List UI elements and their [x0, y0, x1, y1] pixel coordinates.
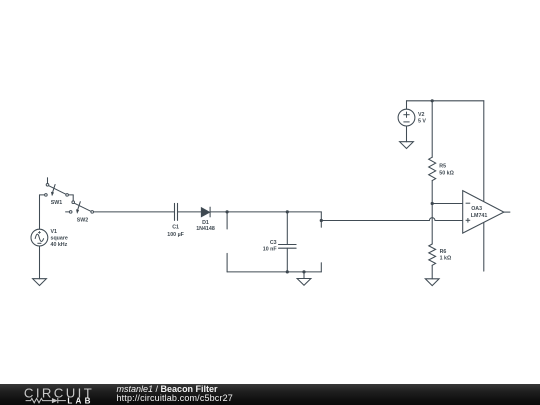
- svg-text:LAB: LAB: [67, 396, 93, 405]
- svg-text:V1: V1: [51, 229, 58, 235]
- svg-text:D1: D1: [202, 220, 209, 226]
- svg-text:C1: C1: [172, 225, 179, 231]
- svg-text:square: square: [51, 236, 68, 242]
- svg-text:OA3: OA3: [471, 206, 482, 212]
- svg-text:50 kΩ: 50 kΩ: [439, 171, 454, 177]
- svg-text:100 µF: 100 µF: [167, 232, 184, 238]
- svg-text:40 kHz: 40 kHz: [51, 242, 68, 248]
- svg-text:10 nF: 10 nF: [263, 246, 278, 252]
- svg-text:V2: V2: [418, 112, 425, 118]
- svg-text:1N4148: 1N4148: [196, 226, 215, 232]
- svg-text:SW2: SW2: [77, 217, 89, 223]
- svg-text:C3: C3: [270, 240, 277, 246]
- svg-text:SW1: SW1: [51, 200, 63, 206]
- svg-text:R6: R6: [440, 249, 447, 255]
- svg-text:5 V: 5 V: [418, 118, 426, 124]
- svg-text:R5: R5: [439, 163, 446, 169]
- svg-text:LM741: LM741: [471, 213, 488, 219]
- svg-text:1 kΩ: 1 kΩ: [440, 256, 452, 262]
